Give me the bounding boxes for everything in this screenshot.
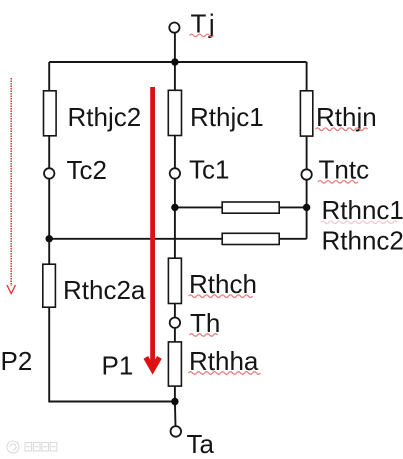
watermark logo (faint) bbox=[7, 441, 57, 453]
resistor Rthc2a (body) bbox=[43, 264, 56, 307]
node Ta (terminal circle) bbox=[171, 426, 182, 437]
resistor Rthjc1 (body) bbox=[168, 90, 181, 135]
svg-text:P1: P1 bbox=[102, 351, 134, 381]
junction: right column / Rthnc1 bbox=[303, 204, 310, 211]
node Tj (terminal circle) bbox=[169, 23, 179, 33]
resistor Rthha (body) bbox=[168, 342, 181, 386]
wire: Tj stem down through center column to Rthjc1 bbox=[174, 33, 176, 91]
wire: bottom junction down to Ta node bbox=[174, 402, 177, 427]
svg-text:Rthjc2: Rthjc2 bbox=[68, 102, 142, 132]
node Tntc (terminal circle) bbox=[301, 169, 311, 179]
svg-text:Tc2: Tc2 bbox=[67, 155, 107, 185]
node Th (terminal circle) bbox=[170, 318, 180, 328]
resistor Rthch (body) bbox=[168, 258, 181, 303]
wire: left column Tc2 to Rthnc2 junction and on to Rthc2a bbox=[48, 179, 50, 264]
node Tc2 (terminal circle) bbox=[44, 168, 54, 178]
spellcheck squiggle under Tj bbox=[190, 34, 214, 37]
spellcheck squiggle under Tntc bbox=[318, 181, 358, 184]
resistor Rthjc2 (body) bbox=[44, 91, 57, 136]
spellcheck squiggle under Rthjn bbox=[316, 128, 368, 131]
spellcheck squiggle under Rthnc1 bbox=[321, 221, 397, 224]
junction: Tj bus / center column bbox=[171, 58, 178, 65]
wire: right column top corner down to Rthjn bbox=[306, 62, 308, 91]
wire: center column Rthha bottom to bottom junction bbox=[174, 386, 176, 402]
wire: Rthnc2 right lead to right column corner bbox=[279, 238, 307, 240]
wire: center column Th to Rthha bbox=[174, 328, 176, 342]
svg-text:Ta: Ta bbox=[187, 429, 215, 459]
wire: top bus from left column to right column bbox=[49, 61, 306, 63]
wire: Rthnc1 left lead from center column bbox=[175, 206, 222, 208]
junction: bottom node above Ta bbox=[171, 398, 178, 405]
svg-text:P2: P2 bbox=[1, 346, 33, 376]
spellcheck squiggle under Th bbox=[190, 334, 218, 337]
wire: right column Tntc down to Rthnc2 corner bbox=[306, 180, 308, 239]
wire: Rthnc1 right lead to right column bbox=[279, 206, 307, 208]
svg-text:Rthjc1: Rthjc1 bbox=[190, 102, 264, 132]
svg-text:Tc1: Tc1 bbox=[189, 155, 229, 185]
spellcheck squiggle under Rthch bbox=[189, 295, 253, 298]
wire: center column Rthjc1 bottom to Tc1 node bbox=[174, 136, 176, 169]
resistor Rthnc1 (body) bbox=[222, 202, 279, 213]
wire: left column top corner down to Rthjc2 bbox=[48, 62, 50, 91]
wire: center column Rthch bottom to Th node bbox=[174, 304, 176, 318]
wire: Rthnc2 left lead from left column across center bbox=[49, 238, 222, 240]
wire: bottom return from Rthc2a to bottom junction bbox=[49, 307, 175, 402]
spellcheck squiggle under Rthha bbox=[189, 372, 261, 375]
arrow P2 heat-flow (red dashed) bbox=[7, 78, 16, 294]
svg-text:Tj: Tj bbox=[191, 9, 218, 39]
resistor Rthnc2 (body) bbox=[222, 233, 279, 244]
junction: center column / Rthnc1 bbox=[171, 204, 178, 211]
svg-text:Rthc2a: Rthc2a bbox=[63, 275, 146, 305]
node Tc1 (terminal circle) bbox=[170, 168, 180, 178]
junction: left column / Rthnc2 bbox=[46, 235, 53, 242]
wire: right column Rthjn bottom to Tntc node bbox=[306, 136, 308, 169]
wire: left column Rthjc2 bottom to Tc2 node bbox=[48, 136, 50, 168]
arrow P1 heat-flow (red) bbox=[146, 87, 160, 369]
svg-text:Rthnc2: Rthnc2 bbox=[322, 226, 403, 256]
wire: center column Tc1 down through Rthnc1 junction to Rthch bbox=[174, 179, 176, 258]
resistor Rthjn (body) bbox=[300, 91, 312, 136]
